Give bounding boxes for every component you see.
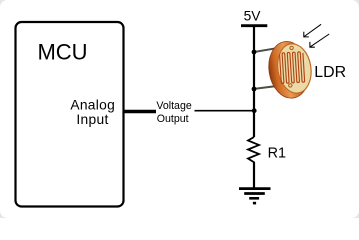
svg-text:Output: Output bbox=[157, 113, 189, 125]
ground bbox=[239, 189, 271, 204]
svg-text:Analog: Analog bbox=[70, 97, 115, 112]
resistor R1 bbox=[248, 137, 259, 170]
node: voltage output junction bbox=[252, 108, 257, 113]
node: LDR bottom junction bbox=[252, 87, 257, 92]
svg-text:5V: 5V bbox=[244, 9, 262, 24]
svg-text:LDR: LDR bbox=[314, 64, 346, 81]
wire: MCU analog input stub bbox=[123, 110, 156, 114]
wire: voltage output to divider node bbox=[195, 110, 255, 112]
power 5V rail bar bbox=[241, 24, 267, 27]
node: 5V to LDR top junction bbox=[252, 50, 257, 55]
wire: 5V down to R1 bbox=[253, 27, 255, 137]
LDR photoresistor bbox=[265, 38, 315, 101]
MCU block bbox=[16, 22, 124, 207]
wire: LDR bottom lead bbox=[253, 86, 279, 89]
svg-text:Voltage: Voltage bbox=[156, 100, 191, 112]
light arrow 1 bbox=[304, 24, 321, 37]
wire: R1 to ground bbox=[253, 162, 255, 188]
light arrow 2 bbox=[310, 34, 329, 47]
svg-text:Input: Input bbox=[76, 112, 108, 127]
svg-text:MCU: MCU bbox=[37, 40, 87, 65]
svg-text:R1: R1 bbox=[268, 146, 286, 162]
wire: LDR top lead bbox=[253, 48, 279, 52]
